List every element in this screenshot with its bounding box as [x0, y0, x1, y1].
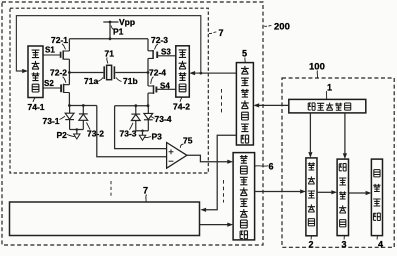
svg-text:5: 5 [242, 49, 247, 59]
svg-text:71a: 71a [84, 76, 98, 86]
wire left bottom node [69, 105, 96, 107]
node P1 junction dot on rail [109, 37, 112, 40]
dashed box 100 (system unit boundary) [282, 78, 394, 247]
svg-text:74-1: 74-1 [28, 102, 45, 112]
ellipsis dashes between detail box and array [110, 181, 112, 197]
wire node A to crystal [69, 72, 103, 74]
arrow into block4 left [366, 191, 372, 195]
svg-text:P3: P3 [152, 132, 163, 142]
svg-text:Vpp: Vpp [119, 17, 135, 27]
node B dot [147, 71, 150, 74]
transistor 72-4 [148, 85, 176, 94]
dashed box 200 (probe unit boundary) [2, 2, 263, 245]
svg-text:7: 7 [219, 28, 224, 38]
svg-text:4: 4 [378, 240, 383, 250]
svg-text:72-3: 72-3 [151, 35, 168, 45]
svg-text:S3: S3 [161, 48, 171, 57]
transistor 72-2 [43, 84, 69, 93]
wire block6 output to block2 [255, 191, 301, 193]
svg-text:73-1: 73-1 [43, 116, 60, 126]
svg-text:73-3: 73-3 [120, 129, 137, 139]
crystal 71 electrode 71b [113, 66, 115, 79]
wire block3 to block4 [349, 192, 366, 194]
label 3 leader [343, 236, 346, 240]
leader 7 [145, 195, 148, 203]
svg-text:6: 6 [269, 162, 274, 172]
junction dots [68, 104, 71, 107]
wire left tap to minus input [97, 106, 167, 157]
ground P3 stem [142, 131, 144, 136]
svg-text:100: 100 [309, 62, 325, 73]
node dot on Vpp wire [109, 21, 112, 24]
leader 73-2 [87, 123, 91, 130]
wire drain 72-1 [68, 39, 70, 51]
arrow into block2 left [300, 189, 306, 193]
junction dots [134, 104, 137, 107]
wire source 72-4 down [147, 93, 149, 106]
svg-text:S4: S4 [160, 81, 170, 90]
label P1 leader [111, 26, 114, 30]
wire right tap to plus input [115, 106, 167, 149]
svg-text:75: 75 [183, 136, 193, 146]
ground P2 [74, 134, 80, 139]
ellipsis dashes repeated channels upper [221, 89, 223, 113]
wire block2 to block3 [317, 191, 331, 193]
svg-text:73-2: 73-2 [87, 129, 104, 139]
label 74-2 leader [180, 97, 182, 102]
svg-text:72-4: 72-4 [149, 68, 166, 78]
ellipsis dashes repeated channels lower [223, 180, 225, 203]
ground P2 stem [76, 130, 78, 135]
arrow into block5 right [253, 103, 259, 107]
arrow into array right edge [200, 208, 206, 212]
svg-text:72-1: 72-1 [51, 35, 68, 45]
ground P3 [139, 135, 145, 140]
wire right bottom node [115, 105, 148, 107]
transistor 72-1 [43, 50, 69, 59]
wire array to block6 lower input [200, 224, 228, 226]
wire drain 72-3 [147, 39, 149, 51]
svg-text:2: 2 [309, 240, 314, 250]
leader 71b [116, 78, 122, 82]
wire op-amp output to block 6 [187, 155, 228, 161]
label 5 leader [244, 58, 246, 63]
leader 73-4 [151, 117, 155, 119]
svg-text:1: 1 [327, 83, 332, 93]
leader 71 [107, 58, 108, 64]
wire: block5 output loop over top to 74-1 [16, 16, 236, 74]
diode 73-3 [131, 106, 140, 131]
arrow into block3 top [343, 153, 347, 159]
wire diode bottoms right [136, 130, 149, 132]
svg-text:S1: S1 [45, 46, 55, 55]
wire block5 second output to array [206, 135, 236, 210]
wire block1 down to block3 [344, 113, 346, 153]
dashed box 7 (element circuit detail) [10, 8, 208, 173]
leader 73-3 [130, 123, 134, 130]
svg-text:74-2: 74-2 [173, 102, 190, 112]
transistor 72-3 [148, 50, 176, 59]
wire P1 vertical [109, 22, 111, 39]
diode 73-4 [144, 106, 153, 131]
wire block1 down to block2 [309, 113, 311, 152]
svg-text:S2: S2 [44, 79, 54, 88]
arrow into 74-1 [22, 69, 28, 73]
svg-text:71: 71 [105, 49, 115, 59]
svg-text:200: 200 [274, 22, 290, 33]
arrow into 74-2 [189, 71, 195, 75]
wire mid left column [68, 59, 70, 84]
leader 72-1 [62, 44, 66, 50]
svg-text:P2: P2 [57, 130, 68, 140]
leader 72-3 [154, 44, 158, 49]
wire stub into 74-2 [195, 72, 201, 74]
wire source 72-2 down [68, 93, 70, 106]
label 74-1 leader [33, 98, 35, 102]
crystal 71 electrode 71a [103, 66, 105, 79]
svg-text:P1: P1 [113, 27, 124, 37]
arrow into block3 left [331, 190, 337, 194]
wire top rail [69, 38, 148, 40]
arrow into block 6 lower input [227, 223, 233, 227]
Vpp wire [103, 21, 118, 23]
leader P2 [67, 135, 75, 137]
crystal 71 body [107, 65, 112, 79]
leader 72-2 [63, 77, 66, 83]
leader 72-4 [151, 77, 154, 84]
svg-text:7: 7 [143, 186, 148, 196]
junction at P-node of wire [199, 72, 202, 75]
label 4 leader [376, 236, 379, 240]
node A dot [68, 71, 71, 74]
wire diode bottoms left [70, 129, 84, 131]
label 1 leader [325, 91, 327, 99]
svg-text:71b: 71b [123, 76, 138, 86]
leader 71a [98, 78, 104, 82]
label 6 leader [255, 165, 268, 167]
label 2 leader [310, 236, 313, 240]
svg-text:73-4: 73-4 [155, 114, 172, 124]
wire block1 to block5 [259, 104, 289, 106]
svg-text:3: 3 [342, 240, 347, 250]
leader 73-1 [60, 116, 66, 119]
wire mid right column [147, 58, 149, 86]
arrow into block 6 top input [227, 160, 233, 164]
arrow into block2 top [308, 152, 312, 158]
label 7 (top) leader [209, 32, 218, 34]
svg-text:72-2: 72-2 [50, 68, 67, 78]
label 100 leader [316, 71, 318, 79]
leader P3 [145, 137, 152, 138]
wire crystal to node B [115, 72, 148, 74]
diode 73-2 [79, 106, 88, 130]
diode 73-1 [65, 106, 74, 130]
leader 75 [180, 144, 183, 148]
label 200 leader [264, 25, 273, 28]
